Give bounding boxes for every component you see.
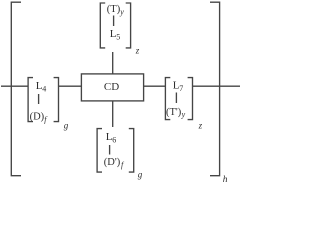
- svg-text:(D): (D): [30, 112, 45, 123]
- svg-text:7: 7: [179, 84, 183, 93]
- svg-text:4: 4: [42, 84, 46, 93]
- svg-text:(T'): (T'): [166, 107, 182, 118]
- bond in top group: [113, 16, 115, 27]
- outer left bracket: [11, 2, 21, 176]
- svg-text:CD: CD: [104, 81, 119, 93]
- bottom group right bracket: [129, 129, 134, 173]
- top group left bracket: [100, 3, 105, 48]
- top group right bracket: [126, 3, 131, 48]
- bond in right group: [175, 93, 177, 104]
- right group left bracket: [165, 78, 170, 120]
- left group left bracket: [28, 78, 33, 122]
- svg-text:z: z: [198, 121, 203, 131]
- svg-text:y: y: [181, 110, 186, 119]
- wire: right horizontal bond: [193, 85, 240, 87]
- svg-text:y: y: [119, 7, 124, 16]
- svg-text:h: h: [223, 175, 228, 184]
- bottom group left bracket: [97, 129, 102, 173]
- bond in bottom group: [109, 145, 111, 155]
- svg-text:f: f: [121, 161, 125, 170]
- bond in left group: [38, 94, 40, 104]
- svg-text:g: g: [138, 170, 143, 180]
- outer right bracket: [210, 2, 220, 176]
- svg-text:5: 5: [116, 32, 120, 41]
- left group right bracket: [54, 78, 59, 122]
- wire: top group to CD box: [112, 52, 114, 74]
- wire: CD box to right group: [144, 85, 166, 87]
- svg-text:(T): (T): [107, 4, 121, 15]
- svg-text:z: z: [135, 46, 140, 56]
- wire: left horizontal bond: [1, 85, 28, 87]
- wire: left group to CD box: [59, 85, 82, 87]
- svg-text:f: f: [44, 115, 48, 124]
- wire: CD box to bottom group: [112, 101, 114, 127]
- svg-text:6: 6: [112, 135, 116, 144]
- svg-text:(D'): (D'): [104, 157, 121, 168]
- right group right bracket: [188, 78, 193, 120]
- CD box: [81, 74, 143, 101]
- svg-text:g: g: [64, 121, 69, 131]
